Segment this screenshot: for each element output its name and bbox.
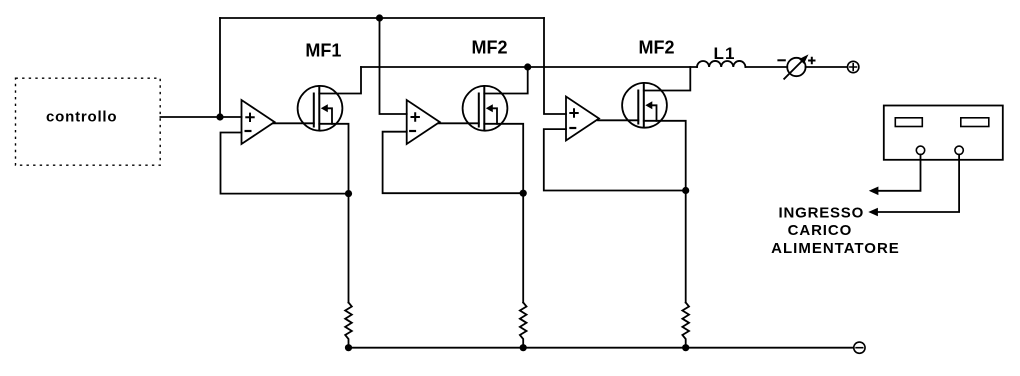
node R3 on ground rail [682, 344, 689, 351]
node feedback/source junction stage1 [345, 190, 352, 197]
wire Q1 drain [319, 67, 361, 94]
svg-text:MF2: MF2 [472, 38, 508, 58]
node R2 on ground rail [520, 344, 527, 351]
wire L1 to meter [745, 66, 787, 68]
svg-text:CARICO: CARICO [788, 222, 853, 239]
svg-text:INGRESSO: INGRESSO [779, 205, 865, 222]
svg-text:controllo: controllo [46, 109, 117, 126]
wire meter to plus terminal [806, 66, 848, 68]
wire control riser stage3 [544, 18, 566, 114]
op-amp U3 [566, 97, 599, 141]
inductor L1 [697, 61, 745, 67]
svg-text:ALIMENTATORE: ALIMENTATORE [771, 240, 900, 257]
wire U1 output to Q1 gate [274, 122, 314, 124]
node feedback/source junction stage3 [682, 187, 689, 194]
wire socket terminal 2 with arrow [868, 155, 959, 217]
mosfet Q1 MF1 [298, 86, 343, 131]
terminal plus output [848, 61, 859, 72]
wire controllo output to U1 + input [160, 116, 241, 118]
svg-text:MF1: MF1 [305, 41, 341, 61]
connector box (alimentatore socket) [884, 106, 1003, 160]
wire Q1 source down [319, 124, 348, 303]
wire ground rail [349, 347, 854, 349]
controllo box [16, 78, 161, 165]
node rail branch stage2 [376, 14, 383, 21]
resistor R1 [345, 303, 352, 348]
wire Q3 source down [644, 121, 686, 303]
resistor R3 [682, 303, 689, 348]
svg-text:L1: L1 [713, 44, 735, 63]
node Q2 drain on output line [524, 63, 531, 70]
wire U2 output to Q2 gate [439, 122, 479, 124]
wire Q2 drain [484, 67, 527, 94]
wire U3 feedback (minus input) [544, 129, 686, 190]
wire Q3 drain [644, 67, 691, 91]
mosfet Q2 MF2 [463, 86, 508, 131]
wire U1 feedback (minus input) [221, 133, 349, 194]
svg-text:MF2: MF2 [639, 38, 675, 58]
resistor R2 [520, 303, 527, 348]
wire U2 feedback (minus input) [383, 132, 524, 194]
mosfet Q3 MF2 [622, 83, 667, 128]
terminal minus output [854, 342, 865, 353]
op-amp U2 [407, 100, 440, 144]
node junction control/U1 [216, 113, 223, 120]
op-amp U1 [242, 100, 275, 144]
meter M1 [778, 54, 814, 78]
wire control riser stage1 [219, 18, 221, 117]
wire control riser stage2 [380, 18, 407, 114]
wire output line (drain bus) [361, 66, 697, 68]
wire Q2 source down [484, 124, 523, 303]
wire top control rail [220, 17, 544, 19]
wire socket terminal 1 with arrow [869, 155, 921, 196]
node R1 on ground rail [345, 344, 352, 351]
wire U3 output to Q3 gate [598, 119, 638, 121]
node feedback/source junction stage2 [520, 190, 527, 197]
